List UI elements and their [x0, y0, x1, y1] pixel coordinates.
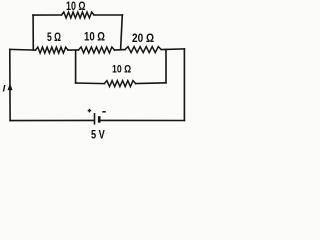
svg-text:I: I [3, 84, 6, 95]
wire row2 between 10ohm and 20ohm [115, 49, 126, 51]
wire top branch left vertical [32, 15, 34, 50]
wire row2 left segment [10, 48, 36, 51]
wire top branch right vertical [121, 15, 123, 50]
resistor R4 20ohm [125, 47, 161, 53]
svg-text:10 Ω: 10 Ω [112, 64, 131, 76]
svg-text:20 Ω: 20 Ω [132, 33, 154, 45]
wire lower branch right vertical [165, 49, 167, 82]
resistor R5 10ohm lower [104, 81, 135, 87]
svg-text:5 Ω: 5 Ω [47, 32, 61, 44]
resistor R3 10ohm middle [79, 47, 115, 53]
wire top branch left lead [33, 14, 62, 16]
battery plus sign [88, 109, 92, 113]
wire bottom left segment [10, 119, 93, 121]
battery B1 positive plate [94, 113, 96, 125]
resistor R1 10ohm top [62, 12, 95, 18]
wire left side vertical [9, 49, 11, 120]
svg-text:10 Ω: 10 Ω [84, 32, 105, 44]
wire row2 right segment [161, 48, 184, 51]
svg-text:5 V: 5 V [91, 129, 105, 140]
wire row2 between 5ohm and 10ohm [68, 49, 79, 51]
wire lower branch bottom left lead [76, 82, 105, 85]
wire top branch right lead [94, 14, 122, 16]
wire bottom right segment [100, 119, 184, 121]
svg-text:10 Ω: 10 Ω [66, 0, 86, 13]
wire right side vertical [183, 49, 185, 121]
wire lower branch left vertical [75, 50, 77, 83]
resistor R2 5ohm [36, 47, 69, 53]
wire lower branch bottom right lead [136, 82, 166, 85]
current arrow I [8, 83, 13, 90]
battery B1 negative plate [98, 116, 101, 123]
battery minus sign [102, 111, 106, 113]
